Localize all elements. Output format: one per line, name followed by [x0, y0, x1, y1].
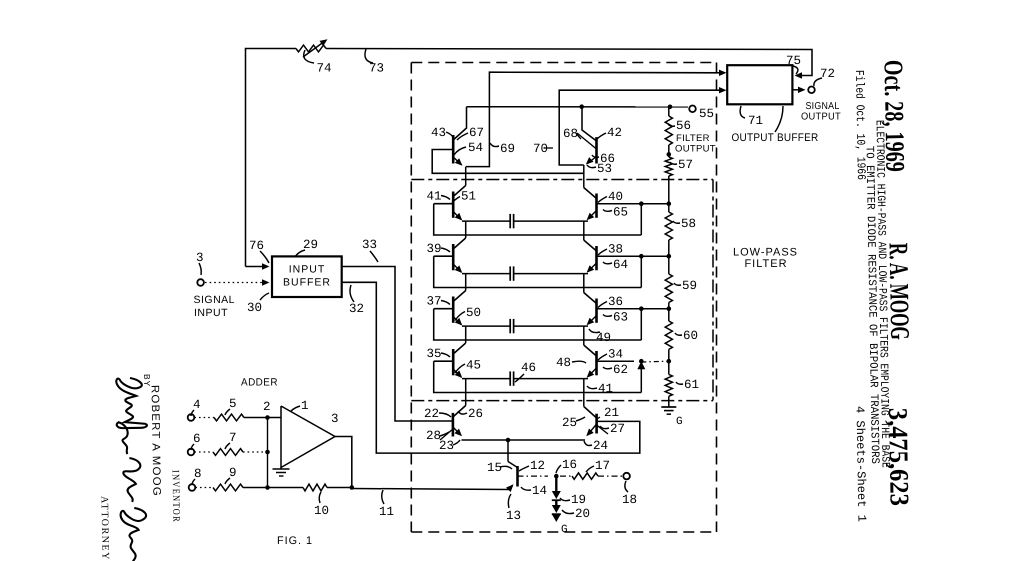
- svg-text:39: 39: [427, 242, 442, 256]
- svg-text:60: 60: [683, 329, 698, 343]
- svg-text:INPUT: INPUT: [194, 307, 228, 319]
- svg-text:SIGNAL: SIGNAL: [806, 101, 840, 112]
- svg-text:23: 23: [439, 439, 454, 453]
- svg-text:12: 12: [530, 459, 545, 473]
- svg-text:43: 43: [431, 126, 446, 140]
- svg-text:17: 17: [595, 459, 610, 473]
- svg-text:2: 2: [263, 400, 271, 414]
- svg-text:1: 1: [301, 399, 309, 413]
- svg-text:54: 54: [468, 141, 483, 155]
- svg-text:G: G: [561, 524, 568, 536]
- svg-text:11: 11: [379, 505, 394, 519]
- svg-text:76: 76: [249, 239, 264, 253]
- svg-text:26: 26: [468, 407, 483, 421]
- svg-text:OUTPUT: OUTPUT: [675, 144, 716, 155]
- svg-text:8: 8: [194, 467, 202, 481]
- svg-text:Filed Oct. 10, 1966: Filed Oct. 10, 1966: [852, 70, 868, 180]
- svg-text:53: 53: [597, 162, 612, 176]
- svg-text:24: 24: [593, 439, 608, 453]
- svg-text:6: 6: [193, 432, 201, 446]
- svg-text:41: 41: [598, 382, 613, 396]
- svg-text:59: 59: [682, 279, 697, 293]
- svg-text:36: 36: [608, 295, 623, 309]
- svg-text:FILTER: FILTER: [676, 133, 710, 144]
- svg-text:73: 73: [369, 62, 384, 76]
- svg-text:19: 19: [571, 493, 586, 507]
- svg-text:30: 30: [247, 301, 262, 315]
- svg-text:63: 63: [613, 311, 628, 325]
- svg-text:27: 27: [610, 422, 625, 436]
- svg-text:65: 65: [613, 206, 628, 220]
- svg-text:INVENTOR: INVENTOR: [170, 470, 182, 523]
- svg-text:10: 10: [314, 504, 329, 518]
- svg-text:58: 58: [681, 217, 696, 231]
- svg-text:3: 3: [331, 412, 339, 426]
- svg-text:9: 9: [229, 466, 237, 480]
- svg-text:35: 35: [427, 347, 442, 361]
- svg-text:22: 22: [424, 407, 439, 421]
- svg-text:FILTER: FILTER: [744, 258, 787, 270]
- svg-text:13: 13: [506, 509, 521, 523]
- svg-text:61: 61: [684, 378, 699, 392]
- svg-text:72: 72: [820, 67, 835, 81]
- svg-text:LOW-PASS: LOW-PASS: [733, 247, 798, 259]
- svg-text:45: 45: [466, 359, 481, 373]
- svg-text:64: 64: [613, 258, 628, 272]
- svg-text:68: 68: [563, 127, 578, 141]
- svg-text:25: 25: [562, 416, 577, 430]
- svg-text:SIGNAL: SIGNAL: [194, 294, 236, 306]
- svg-text:18: 18: [622, 493, 637, 507]
- svg-text:OUTPUT: OUTPUT: [801, 112, 841, 123]
- svg-text:7: 7: [229, 431, 237, 445]
- svg-text:21: 21: [604, 406, 619, 420]
- svg-text:BUFFER: BUFFER: [283, 277, 331, 289]
- svg-text:41: 41: [427, 190, 442, 204]
- svg-text:51: 51: [461, 190, 476, 204]
- svg-text:20: 20: [575, 507, 590, 521]
- svg-text:42: 42: [607, 126, 622, 140]
- svg-text:FIG. 1: FIG. 1: [277, 535, 313, 547]
- svg-text:49: 49: [596, 331, 611, 345]
- svg-text:16: 16: [562, 458, 577, 472]
- svg-text:57: 57: [678, 158, 693, 172]
- svg-text:74: 74: [317, 62, 332, 76]
- svg-text:46: 46: [521, 361, 536, 375]
- svg-text:OUTPUT BUFFER: OUTPUT BUFFER: [732, 132, 819, 144]
- svg-text:69: 69: [500, 142, 515, 156]
- svg-text:ROBERT A MOOG: ROBERT A MOOG: [149, 385, 163, 497]
- svg-text:37: 37: [427, 295, 442, 309]
- svg-text:50: 50: [466, 306, 481, 320]
- svg-text:71: 71: [748, 114, 763, 128]
- svg-text:4 Sheets-Sheet 1: 4 Sheets-Sheet 1: [853, 406, 869, 522]
- svg-text:55: 55: [699, 107, 714, 121]
- svg-text:34: 34: [608, 348, 623, 362]
- svg-text:67: 67: [469, 126, 484, 140]
- svg-text:15: 15: [487, 461, 502, 475]
- svg-text:INPUT: INPUT: [289, 264, 326, 276]
- svg-text:38: 38: [608, 243, 623, 257]
- svg-text:32: 32: [349, 302, 364, 316]
- svg-text:48: 48: [556, 356, 571, 370]
- svg-text:40: 40: [608, 190, 623, 204]
- svg-text:70: 70: [533, 142, 548, 156]
- svg-text:G: G: [676, 416, 683, 428]
- svg-text:ATTORNEY: ATTORNEY: [99, 496, 111, 561]
- svg-text:56: 56: [676, 119, 691, 133]
- svg-text:ADDER: ADDER: [241, 377, 278, 389]
- svg-text:62: 62: [613, 363, 628, 377]
- svg-text:5: 5: [229, 397, 237, 411]
- svg-text:4: 4: [193, 398, 201, 412]
- svg-text:29: 29: [303, 238, 318, 252]
- svg-text:33: 33: [362, 238, 377, 252]
- svg-text:14: 14: [532, 484, 547, 498]
